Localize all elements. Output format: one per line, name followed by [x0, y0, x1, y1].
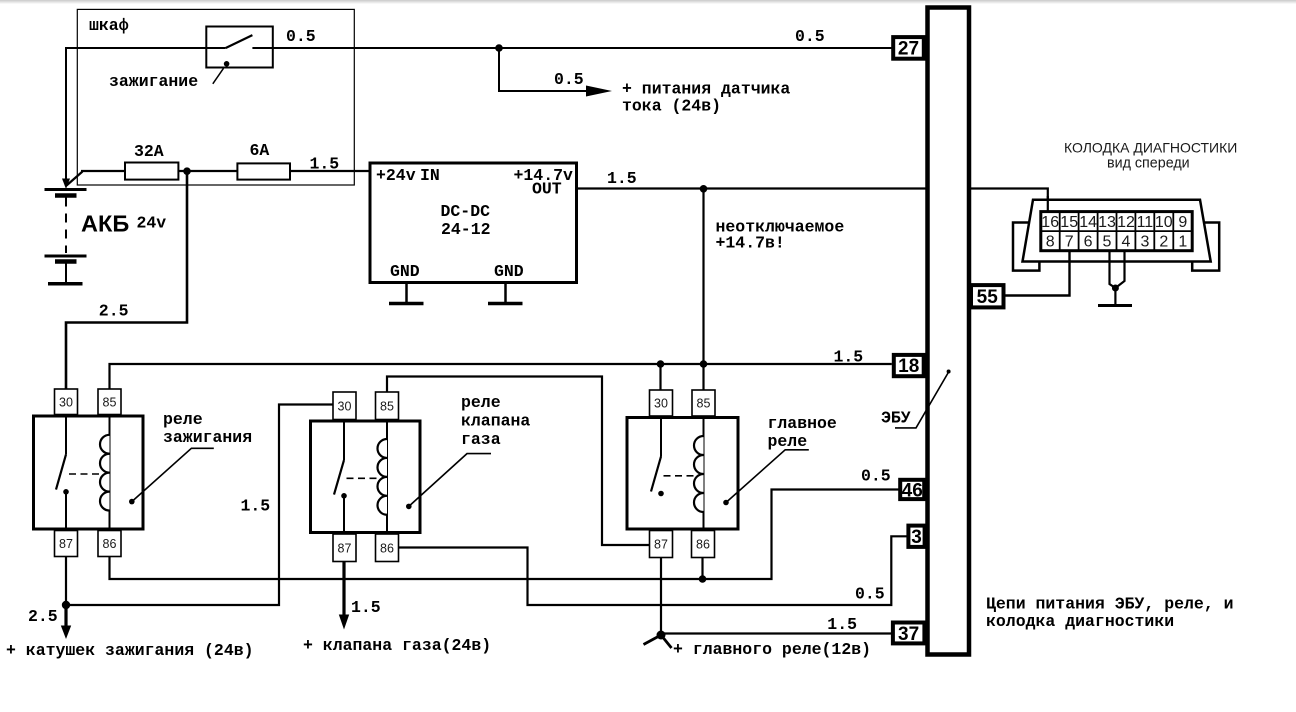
- svg-text:ЭБУ: ЭБУ: [881, 409, 911, 428]
- diagnostic connector (колодка диагностики): [1013, 140, 1237, 271]
- ground symbol under DC-DC right: [488, 284, 523, 304]
- svg-text:1.5: 1.5: [241, 497, 271, 516]
- whisker right: [661, 635, 672, 648]
- wire: ignition relay 87 down to node: [65, 557, 67, 606]
- DC-DC converter U1 24-12: [370, 163, 577, 283]
- svg-text:2.5: 2.5: [28, 607, 58, 626]
- wire: 1.5 link from junction to gas valve relay 30: [66, 405, 334, 606]
- svg-text:37: 37: [898, 624, 919, 645]
- svg-text:87: 87: [338, 541, 352, 555]
- K1 dashed armature link: [69, 473, 99, 475]
- K3 pin 86: [692, 531, 715, 558]
- ECU bar (ЭБУ): [928, 8, 970, 655]
- wire: gas valve relay 86 to ECU pin 3 (0.5): [397, 536, 907, 605]
- wire: K2 coil column: [386, 377, 388, 535]
- arrow onto battery + terminal: [62, 179, 70, 190]
- svg-text:0.5: 0.5: [286, 27, 316, 46]
- K2 coil L2: [378, 439, 388, 515]
- svg-text:2: 2: [1159, 234, 1168, 251]
- svg-text:1.5: 1.5: [607, 169, 637, 188]
- K2 pin 86: [376, 534, 399, 562]
- svg-text:18: 18: [898, 356, 919, 377]
- svg-text:вид спереди: вид спереди: [1107, 156, 1190, 172]
- wire: branch to current sensor supply with arrow: [499, 48, 588, 91]
- wire: K3 pin30 column: [660, 391, 662, 457]
- svg-text:32А: 32А: [134, 142, 164, 161]
- ECU pin 18: [894, 355, 924, 376]
- svg-text:85: 85: [103, 395, 117, 409]
- node: ignition coils feed junction: [62, 601, 70, 609]
- ECU pin 3: [908, 526, 924, 547]
- svg-text:4: 4: [1122, 234, 1131, 251]
- K2 pin 85: [376, 392, 399, 420]
- node: K3 switch contact: [658, 491, 664, 497]
- wire: drop to main relay 30: [659, 364, 661, 391]
- svg-text:87: 87: [59, 537, 73, 551]
- svg-text:0.5: 0.5: [554, 70, 584, 89]
- svg-text:GND: GND: [494, 262, 524, 281]
- svg-text:2.5: 2.5: [99, 302, 129, 321]
- svg-text:46: 46: [902, 481, 923, 502]
- K3 pin 85: [692, 390, 715, 416]
- wire: K2 pin30 column: [343, 420, 345, 461]
- wire: switch output 0.5 to ECU pin 27: [252, 47, 893, 49]
- wire: K2 pin87 column: [343, 496, 345, 561]
- K2 pin 87: [333, 534, 356, 562]
- node: K1 switch contact: [63, 489, 69, 495]
- K1 body: [34, 416, 144, 529]
- svg-text:86: 86: [696, 538, 710, 552]
- svg-text:газа: газа: [461, 430, 501, 449]
- ECU pin 46: [900, 480, 924, 499]
- svg-text:реле: реле: [461, 393, 501, 412]
- svg-text:колодка диагностики: колодка диагностики: [986, 612, 1174, 631]
- svg-text:0.5: 0.5: [795, 27, 825, 46]
- svg-text:85: 85: [380, 399, 394, 413]
- connector right ear: [1192, 223, 1219, 271]
- K1 pin 85: [98, 389, 121, 415]
- node: main relay 86 joins 46 wire: [699, 575, 707, 583]
- fuse F1 32А: [125, 163, 178, 180]
- svg-text:24-12: 24-12: [441, 220, 491, 239]
- K2 body: [311, 421, 421, 533]
- K3 pin 87: [650, 531, 673, 558]
- K1 pin 30: [55, 389, 78, 415]
- svg-text:зажигания: зажигания: [163, 428, 252, 447]
- wire: ECU pin 55 to connector pin 7: [1006, 250, 1070, 296]
- svg-text:КОЛОДКА ДИАГНОСТИКИ: КОЛОДКА ДИАГНОСТИКИ: [1064, 140, 1237, 156]
- svg-text:11: 11: [1137, 214, 1154, 231]
- svg-text:1.5: 1.5: [827, 615, 857, 634]
- svg-text:главное: главное: [768, 414, 837, 433]
- connector trapezoid body: [1023, 200, 1211, 262]
- wire: K3 coil column: [703, 364, 705, 557]
- K2 pointer: [406, 504, 412, 510]
- svg-text:DC-DC: DC-DC: [441, 202, 491, 221]
- relay K3 main relay (главное реле): [627, 364, 837, 558]
- wire: connector pins 5 and 4 to ground: [1110, 250, 1116, 288]
- ground symbol under DC-DC left: [389, 284, 424, 304]
- svg-text:GND: GND: [390, 262, 420, 281]
- fuse F2 6А: [237, 163, 290, 179]
- K3 pin 30: [650, 390, 673, 416]
- wire: bus B main relay 87 to gas valve relay 85: [387, 377, 651, 546]
- svg-text:Цепи питания ЭБУ, реле, и: Цепи питания ЭБУ, реле, и: [986, 595, 1234, 614]
- wire: K1 pin87 column: [65, 492, 67, 557]
- wire: gas valve relay 87 arrow down 1.5: [342, 561, 345, 617]
- svg-text:0.5: 0.5: [855, 585, 885, 604]
- node: bus A to main relay 30: [657, 360, 665, 368]
- wire: K1 coil column: [109, 364, 111, 579]
- node: ground junction: [1112, 285, 1119, 292]
- ECU pin 37: [893, 623, 925, 644]
- svg-text:1.5: 1.5: [310, 155, 340, 174]
- svg-text:реле: реле: [163, 410, 203, 429]
- K2 dashed armature link: [347, 477, 378, 479]
- wire: +14.7 vertical down to bus A: [702, 189, 704, 365]
- svg-text:+ главного реле(12в): + главного реле(12в): [673, 640, 871, 659]
- K3 body: [627, 418, 738, 530]
- ECU pin 27: [893, 37, 924, 59]
- battery АКБ 24v: [45, 190, 87, 284]
- svg-text:1.5: 1.5: [351, 598, 381, 617]
- svg-text:15: 15: [1060, 214, 1078, 231]
- svg-text:IN: IN: [420, 166, 440, 185]
- svg-text:85: 85: [697, 397, 711, 411]
- svg-text:тока (24в): тока (24в): [622, 97, 721, 116]
- svg-text:13: 13: [1098, 214, 1116, 231]
- svg-text:+ катушек зажигания (24в): + катушек зажигания (24в): [6, 641, 254, 660]
- cabinet box (шкаф): [77, 9, 354, 185]
- wire: +14.7v output 1.5 to diagnostic pin 16: [577, 189, 1048, 213]
- svg-text:16: 16: [1041, 214, 1059, 231]
- wire: +14.7 into pin 16 (overlay): [1047, 196, 1049, 213]
- svg-text:1: 1: [1178, 234, 1187, 251]
- wire: K2 switch blade: [334, 460, 344, 495]
- svg-text:3: 3: [1140, 234, 1149, 251]
- node: +14.7 branch down: [700, 185, 708, 193]
- wire: bus A +14.7 (1.5) to relays and pin 18: [110, 364, 892, 390]
- node: K2 switch contact: [341, 493, 347, 499]
- wire: switch feed from battery, left vertical + top horizontal to switch: [66, 48, 226, 179]
- wire: main relay 87 down to crotch node: [660, 557, 662, 635]
- K1 coil L1: [100, 435, 110, 511]
- K1 pin 87: [55, 531, 78, 557]
- svg-text:10: 10: [1155, 214, 1173, 231]
- wire: K1 switch blade: [56, 454, 66, 489]
- ignition switch S1 (зажигание): [206, 27, 272, 84]
- node: junction after fuse F1: [183, 167, 191, 175]
- svg-text:OUT: OUT: [532, 180, 562, 199]
- node: main relay feed crotch: [657, 631, 666, 640]
- svg-text:0.5: 0.5: [861, 467, 891, 486]
- svg-text:6: 6: [1084, 234, 1093, 251]
- svg-text:86: 86: [103, 537, 117, 551]
- wire: main relay 86 down: [701, 557, 703, 579]
- svg-text:+ клапана газа(24в): + клапана газа(24в): [303, 636, 491, 655]
- svg-text:1.5: 1.5: [834, 348, 864, 367]
- svg-text:клапана: клапана: [461, 412, 530, 431]
- node: bus A to main relay 85: [700, 360, 708, 368]
- wire: battery + up to fuse line: [67, 172, 83, 186]
- wire: fuse line 1.5 into DC-DC +24v IN: [81, 170, 370, 172]
- K2 pin 30: [333, 392, 356, 420]
- svg-text:27: 27: [898, 39, 919, 60]
- ECU pin 55: [971, 285, 1004, 307]
- wire: 2.5 from fuse junction down-left to ignition relay 30: [66, 171, 187, 390]
- arrow: 2.5 down to ignition coils: [64, 605, 67, 628]
- ground symbol under connector: [1114, 288, 1116, 304]
- svg-text:87: 87: [654, 538, 668, 552]
- svg-text:5: 5: [1103, 234, 1112, 251]
- relay K2 gas valve relay (реле клапана газа): [311, 377, 531, 562]
- relay K1 ignition relay (реле зажигания): [34, 364, 253, 579]
- svg-text:шкаф: шкаф: [89, 16, 129, 35]
- svg-text:8: 8: [1046, 234, 1055, 251]
- svg-text:86: 86: [380, 541, 394, 555]
- svg-text:7: 7: [1065, 234, 1074, 251]
- K3 coil L3: [694, 436, 703, 512]
- svg-text:АКБ: АКБ: [81, 211, 129, 237]
- svg-text:30: 30: [654, 397, 668, 411]
- svg-text:9: 9: [1178, 214, 1187, 231]
- wire: drop to main relay 85: [702, 364, 704, 391]
- svg-text:14: 14: [1079, 214, 1097, 231]
- wire: ignition relay 86 to ECU pin 46 (0.5): [110, 490, 900, 580]
- K1 pin 86: [98, 531, 121, 557]
- whisker left: [644, 635, 662, 645]
- K1 pointer: [129, 499, 135, 505]
- svg-text:+24v: +24v: [376, 166, 416, 185]
- svg-text:6А: 6А: [250, 141, 270, 160]
- svg-text:зажигание: зажигание: [109, 72, 198, 91]
- svg-text:55: 55: [977, 287, 999, 308]
- svg-text:12: 12: [1117, 214, 1135, 231]
- svg-text:30: 30: [338, 399, 352, 413]
- svg-text:24v: 24v: [137, 214, 167, 233]
- connector left ear: [1013, 223, 1039, 271]
- svg-text:3: 3: [911, 527, 922, 548]
- K3 dashed armature link: [664, 475, 695, 477]
- connector pin grid: [1041, 212, 1192, 251]
- K3 pointer: [723, 500, 729, 506]
- wire: K1 pin30 column: [65, 390, 67, 454]
- svg-text:реле: реле: [768, 432, 808, 451]
- svg-text:30: 30: [59, 395, 73, 409]
- svg-text:+14.7в!: +14.7в!: [716, 234, 785, 253]
- node: tap for current sensor supply: [495, 44, 503, 52]
- wire: 1.5 to ECU pin 37: [661, 632, 892, 634]
- wire: K3 switch blade: [651, 457, 661, 492]
